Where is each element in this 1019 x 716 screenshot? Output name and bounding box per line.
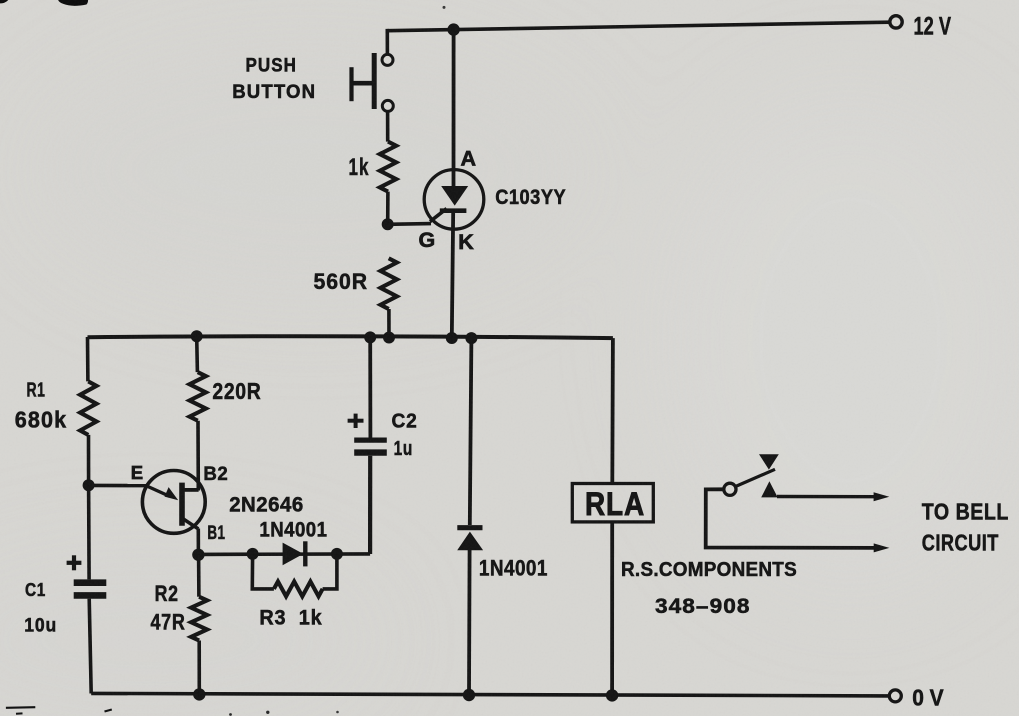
wire: R3 loop left	[252, 554, 274, 589]
wire: 560R to rail	[387, 309, 391, 338]
push button plunger stem	[351, 81, 372, 86]
scan speck dot b	[229, 713, 232, 716]
wire: B1 node to R2	[197, 555, 201, 597]
scan speck dot c	[443, 6, 446, 9]
wire: cathode down to rail	[452, 211, 453, 338]
label + (C2 polarity)	[348, 419, 364, 423]
wire: 12V top rail	[387, 22, 889, 31]
node: diode branch top	[465, 332, 477, 344]
wire: RLA coil to 0V rail	[610, 522, 614, 696]
wire: 12V rail to push button top contact	[385, 29, 389, 55]
node: D1 anode	[247, 548, 259, 560]
UJT B1 lead	[183, 519, 198, 529]
arrowhead lower	[874, 543, 890, 552]
scan speck pair	[105, 710, 112, 712]
wire: contact common	[706, 489, 876, 548]
wire: 220R to B2	[196, 421, 200, 491]
UJT emitter arrow shaft	[147, 486, 170, 496]
capacitor C2 plate bottom	[354, 449, 387, 455]
node: D2 bottom	[463, 689, 475, 701]
relay contact pivot	[724, 483, 736, 495]
wire: gate horizontal	[388, 222, 431, 226]
UJT base bar	[179, 483, 185, 526]
terminal: 12V	[890, 16, 902, 28]
UJT body circle	[142, 471, 205, 534]
capacitor C1 plate top	[74, 579, 107, 586]
wire: contact to bell (upper)	[777, 495, 876, 499]
wire: B1 to diode network	[198, 552, 370, 556]
wire: 1k to gate node	[386, 192, 390, 224]
wire: rail to D2	[470, 338, 472, 525]
wire: mid supply rail	[88, 336, 613, 338]
relay contact upper stop (triangle down)	[759, 454, 779, 469]
push button plunger cap	[349, 67, 353, 101]
scan speck dot d	[336, 711, 339, 714]
resistor R2 47R	[191, 597, 207, 641]
resistor 1k	[380, 142, 396, 192]
capacitor C1 plate bottom	[74, 592, 107, 599]
wire: C2 down to B1 wire	[368, 456, 372, 554]
push button actuator bar	[372, 53, 377, 109]
relay contact arm	[735, 469, 775, 487]
node: D1 cathode	[331, 548, 343, 560]
thyristor gate lead	[430, 209, 447, 222]
wire: R1 to emitter node	[87, 435, 91, 485]
wire: push button to 1k	[386, 111, 390, 141]
wire: emitter node to C1	[87, 485, 91, 579]
resistor 220R	[190, 372, 206, 421]
node: cathode to rail	[446, 332, 458, 344]
thyristor anode triangle	[441, 186, 468, 206]
terminal: 0V	[889, 690, 901, 702]
cropped print fragment top (second)	[58, 0, 88, 6]
resistor R1 680k	[80, 381, 96, 435]
wire: R3 loop right	[323, 554, 337, 589]
node: emitter junction	[83, 479, 95, 491]
node: R2 bottom	[193, 688, 205, 700]
wire: R2 to 0V rail	[197, 641, 201, 695]
RLA coil box	[572, 484, 653, 522]
node: RLA bottom	[606, 689, 618, 701]
push button top contact	[382, 54, 393, 65]
node: B1 junction	[192, 549, 204, 561]
relay contact lower stop (triangle up)	[761, 481, 778, 497]
wire: rail to 220R	[195, 336, 199, 372]
label + (C1 polarity)	[67, 561, 82, 565]
node: gate junction	[382, 218, 394, 230]
diode D1 cathode bar	[303, 541, 307, 566]
arrowhead upper	[874, 492, 890, 501]
node: 220R top	[191, 330, 203, 342]
thyristor body circle	[424, 170, 484, 230]
diode D2 triangle	[457, 532, 483, 551]
wire: B1 lead down to node	[197, 529, 201, 555]
UJT emitter arrowhead	[165, 487, 179, 500]
wire: rail corner to RLA coil	[610, 338, 614, 484]
diode D2 cathode bar	[457, 525, 482, 530]
scan speck dot a	[266, 711, 269, 714]
push button bottom contact	[382, 100, 393, 111]
UJT B2 lead	[183, 488, 199, 492]
wire: anode from 12V rail	[452, 30, 456, 187]
diode D1 triangle	[283, 543, 304, 566]
capacitor C2 plate top	[354, 438, 387, 443]
scan speck small dash	[16, 712, 23, 714]
wire: rail to R1	[86, 337, 90, 381]
node: 560R bottom	[383, 332, 395, 344]
cropped print fragment top-left	[0, 0, 10, 3]
node: C2 top	[364, 331, 376, 343]
wire: rail to C2	[368, 337, 372, 438]
node: thyristor anode junction on 12V rail	[447, 23, 459, 35]
wire: 0V bottom rail	[91, 693, 889, 696]
resistor 560R	[381, 258, 397, 309]
wire: D2 to 0V rail	[467, 549, 471, 695]
thyristor cathode bar	[440, 208, 467, 213]
wire: C1 to 0V rail	[89, 599, 91, 694]
wire: emitter horizontal	[89, 484, 148, 488]
scan speck dash bottom-left	[6, 706, 35, 709]
resistor R3	[274, 582, 323, 597]
